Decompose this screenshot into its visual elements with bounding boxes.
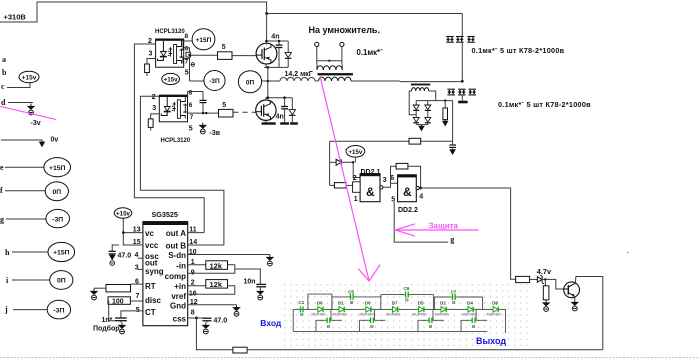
- wire node d: [8, 102, 33, 104]
- capacitor 1n CT: [115, 317, 127, 319]
- wire multiplier input rail: [293, 308, 505, 310]
- wire T1 primary leads: [317, 47, 342, 65]
- wire multiplier left drop: [292, 309, 294, 331]
- svg-text:+15П: +15П: [49, 165, 66, 172]
- supply +15v oval (U1 area): [162, 73, 180, 84]
- svg-text:syng: syng: [145, 267, 164, 276]
- svg-text:out A: out A: [166, 229, 186, 238]
- svg-text:7: 7: [136, 293, 140, 300]
- svg-text:D7: D7: [392, 300, 398, 305]
- svg-text:&: &: [366, 185, 375, 199]
- svg-text:10n: 10n: [244, 278, 256, 285]
- svg-text:+15П: +15П: [53, 250, 70, 257]
- transformer T1 primary terminal right: [340, 42, 344, 46]
- capacitor 10n: [256, 283, 266, 285]
- wire diode to DD2.1 pin2: [342, 162, 361, 177]
- wire U2 pin3 to R input: [151, 114, 160, 119]
- svg-text:7: 7: [185, 59, 189, 66]
- svg-text:7: 7: [190, 114, 194, 121]
- diode bridge leg right: [427, 101, 429, 105]
- wire U2 pin7 to gate resistor: [188, 112, 219, 114]
- transformer T1 core bar: [318, 73, 353, 75]
- wire -in to 12k: [188, 264, 206, 266]
- wire S-dn to ground: [188, 254, 270, 256]
- wire multiplier bottom bus: [293, 330, 487, 332]
- wire Q1 source node: [265, 64, 267, 68]
- capacitor 47.0 css: [203, 317, 212, 319]
- diode protection: [336, 159, 341, 165]
- wire node i: [12, 279, 50, 281]
- svg-text:+in: +in: [174, 282, 186, 291]
- svg-text:ʘ: ʘ: [350, 300, 354, 305]
- wire CT pin to cap: [121, 311, 143, 318]
- ground arrow under bridge resistor: [443, 120, 448, 126]
- resistor 5 Ohm (gate B): [219, 109, 234, 117]
- svg-text:RT: RT: [145, 282, 156, 291]
- resistor 12k (feedback): [206, 261, 228, 270]
- svg-text:5: 5: [185, 70, 189, 77]
- resistor bridge load: [444, 101, 446, 108]
- resistor DD2.2 feedback: [391, 166, 397, 183]
- wire Q2 source: [265, 120, 267, 122]
- svg-text:D8: D8: [492, 300, 498, 305]
- svg-text:f: f: [0, 186, 3, 195]
- wire Q3 collector to bottom rail: [575, 277, 603, 350]
- svg-text:C5: C5: [348, 290, 354, 295]
- wire node h: [12, 251, 48, 253]
- svg-text:a: a: [2, 55, 6, 64]
- wire bridge bottom: [416, 124, 428, 126]
- svg-text:+15v: +15v: [164, 77, 178, 84]
- resistor 5 Ohm (gate A): [218, 52, 233, 60]
- ground css cap: [206, 321, 208, 323]
- svg-text:0П: 0П: [246, 79, 255, 86]
- diode snubber Q1: [287, 41, 289, 53]
- ground Gnd pin: [233, 305, 239, 311]
- svg-text:4.7v: 4.7v: [537, 267, 552, 276]
- svg-text:D5: D5: [418, 300, 424, 305]
- svg-text:g: g: [0, 215, 4, 224]
- diode D2: [437, 308, 450, 310]
- wire multiplier loop tops: [308, 294, 332, 309]
- svg-text:ʘ: ʘ: [452, 300, 456, 305]
- transformer T1 secondary winding on main wire: [319, 77, 352, 81]
- zener diode 4.7v: [537, 277, 542, 283]
- capacitor C7: [452, 294, 454, 300]
- diode bridge leg left: [415, 101, 417, 105]
- svg-text:g: g: [450, 235, 454, 244]
- supply 0П circle (i): [50, 271, 73, 290]
- wire bridge rail down to protection line: [452, 101, 454, 142]
- svg-text:vcc: vcc: [145, 241, 159, 250]
- svg-text:4n: 4n: [271, 34, 279, 41]
- svg-text:6: 6: [185, 46, 189, 53]
- ground -3v: [28, 104, 34, 110]
- svg-text:D1: D1: [338, 300, 344, 305]
- capacitor lower tier at x=433: [432, 309, 434, 320]
- capacitor C5: [350, 294, 352, 300]
- svg-text:ʘ: ʘ: [429, 324, 433, 329]
- svg-text:Выход: Выход: [476, 336, 506, 346]
- svg-text:Подбор: Подбор: [93, 325, 120, 333]
- wire comp to 10n cap: [235, 269, 260, 284]
- wire node e: [5, 166, 44, 168]
- resistor 12k (vref divider): [206, 280, 228, 289]
- svg-text:css: css: [173, 314, 187, 323]
- transformer T1 primary terminal left: [315, 42, 319, 46]
- wire main HV run to right: [351, 80, 462, 83]
- capacitor U2 bypass: [200, 99, 207, 101]
- wire vref loop: [188, 286, 235, 295]
- svg-text:1n*: 1n*: [102, 317, 113, 324]
- svg-text:2: 2: [353, 175, 357, 182]
- wire zener to transistor base: [542, 279, 564, 289]
- wire +in to 12k: [188, 285, 206, 287]
- ground S-dn: [267, 255, 273, 261]
- op-amp U1 HCPL3120 body: [156, 39, 184, 67]
- diode snubber Q2: [291, 98, 293, 110]
- transistor Q1 (upper IGBT): [256, 43, 277, 64]
- svg-text:D4: D4: [467, 300, 473, 305]
- svg-text:+310В: +310В: [4, 13, 27, 22]
- capacitor protection filter: [452, 141, 454, 145]
- svg-text:13: 13: [133, 226, 141, 233]
- wire bottom rail: [247, 349, 603, 351]
- wire comp loop: [188, 265, 235, 274]
- ground RT resistor: [91, 289, 97, 295]
- svg-text:-3П: -3П: [53, 307, 64, 314]
- svg-text:На умножитель.: На умножитель.: [309, 25, 380, 35]
- svg-text:4n: 4n: [276, 114, 284, 121]
- svg-text:4: 4: [419, 194, 423, 201]
- svg-text:0.1мк*ˉ: 0.1мк*ˉ: [357, 48, 384, 57]
- svg-text:D0: D0: [365, 300, 371, 305]
- svg-text:C7: C7: [451, 290, 457, 295]
- supply +15П circle (e): [44, 158, 71, 177]
- capacitor 4n (Q1): [278, 41, 280, 45]
- wire protection feed: [330, 140, 409, 142]
- wire diode input: [330, 161, 337, 163]
- wire node g: [6, 218, 46, 220]
- supply -3П circle (U1): [204, 71, 225, 91]
- diode D5: [415, 308, 428, 310]
- wire out A to U1 net: [188, 232, 205, 234]
- svg-text:D6: D6: [317, 300, 323, 305]
- svg-text:MUR460: MUR460: [435, 313, 449, 317]
- wire 0v with arrow: [1, 140, 42, 143]
- svg-text:out B: out B: [166, 241, 187, 250]
- op-amp U2 HCPL3120 body: [159, 95, 187, 122]
- svg-text:C1: C1: [299, 300, 305, 305]
- capacitor lower tier at x=476.1: [475, 309, 477, 320]
- ground bars under Q2 stage: [262, 122, 276, 124]
- supply -3П circle (g): [46, 209, 70, 227]
- svg-text:2: 2: [152, 94, 156, 101]
- annotation pink line (left): [0, 106, 56, 119]
- U2 internal LED: [166, 97, 168, 107]
- U2 internal driver: [177, 100, 180, 119]
- wire bridge mid rail: [416, 100, 452, 102]
- svg-text:c: c: [1, 82, 5, 91]
- transformer T2 winding: [412, 88, 429, 91]
- supply -3П circle (j): [47, 300, 70, 319]
- termination bar under row2: [458, 101, 467, 104]
- svg-text:5: 5: [189, 126, 193, 133]
- svg-text:8: 8: [189, 90, 193, 97]
- wire T2 right loop: [429, 91, 436, 101]
- svg-text:MUR460: MUR460: [359, 313, 373, 317]
- logic gate DD2.1 body: [360, 174, 380, 202]
- ground 10n cap: [259, 287, 261, 289]
- svg-text:comp: comp: [165, 272, 186, 281]
- transistor Q3 (protection BJT): [564, 282, 580, 298]
- svg-text:S-dn: S-dn: [168, 251, 186, 260]
- DD2.1 output circle: [380, 186, 383, 189]
- svg-text:6: 6: [189, 102, 193, 109]
- svg-text:1: 1: [354, 196, 358, 203]
- capacitor 4n (Q2): [284, 98, 286, 107]
- wire DD2.1 out to DD2.2 in: [383, 183, 398, 187]
- U1 output stage glyph: [186, 52, 191, 57]
- ground -3в below U2: [200, 123, 206, 129]
- wire DD2.2 output to driver: [419, 188, 515, 279]
- supply +15v oval (DD2 area): [346, 146, 365, 158]
- wire 100 resistor to CT cap: [109, 301, 115, 321]
- svg-text:Gnd: Gnd: [170, 302, 186, 311]
- svg-text:3: 3: [149, 51, 153, 58]
- svg-text:j: j: [4, 305, 8, 314]
- svg-text:ʘ: ʘ: [405, 298, 409, 303]
- svg-text:47.0: 47.0: [118, 253, 132, 260]
- inductor 14,2 мкГ: [268, 78, 318, 81]
- wire U1 pin5 to -3П: [190, 80, 205, 82]
- supply +15П circle (h): [48, 242, 75, 261]
- resistor U2 input: [148, 119, 153, 128]
- DD2.2 output circle: [416, 186, 419, 189]
- wire node f: [5, 190, 45, 192]
- wire T2 left loop: [409, 91, 416, 115]
- supply 0П circle (f): [45, 182, 68, 201]
- U1 internal driver: [174, 45, 177, 64]
- op-amp U3 SG3525 body: [143, 222, 188, 326]
- wire multiplier right drop: [505, 309, 507, 333]
- svg-text:ʘ: ʘ: [370, 324, 374, 329]
- wire 0П to midpoint: [262, 80, 268, 82]
- ground arrow under bridge: [419, 125, 424, 131]
- wire css to bottom rail: [196, 318, 233, 350]
- svg-text:e: e: [0, 163, 4, 172]
- svg-text:5: 5: [222, 44, 226, 51]
- ground CT cap: [120, 321, 122, 323]
- svg-text:+15v: +15v: [348, 149, 362, 156]
- annotation pink arrow Защита: [395, 229, 478, 231]
- resistor protection feed: [409, 138, 421, 144]
- svg-text:MUR460: MUR460: [311, 313, 325, 317]
- svg-text:-3в: -3в: [210, 130, 221, 137]
- capacitor bank row1 (0.1uF x5): [446, 36, 454, 38]
- wire U1 pin6 node: [184, 48, 190, 81]
- svg-text:15: 15: [133, 239, 141, 246]
- resistor bottom rail: [233, 347, 247, 353]
- svg-text:100: 100: [112, 299, 124, 306]
- ground arrow under filter cap: [450, 148, 455, 154]
- capacitor 47.0 on vcc: [112, 245, 119, 251]
- capacitor lower tier at x=374.4: [373, 309, 375, 320]
- svg-text:ʘ: ʘ: [300, 312, 304, 317]
- capacitor C6: [405, 292, 407, 298]
- wire U1 pin3 to R input: [147, 59, 156, 65]
- svg-text:SG3525: SG3525: [152, 210, 178, 219]
- svg-text:-3П: -3П: [209, 78, 220, 85]
- svg-text:14,2 мкГ: 14,2 мкГ: [285, 71, 313, 78]
- wire +310V step to top rail: [0, 2, 462, 22]
- svg-text:C6: C6: [404, 286, 410, 291]
- annotation pink arrow to multiplier: [320, 76, 369, 281]
- svg-text:ʘ: ʘ: [327, 324, 331, 329]
- svg-text:CT: CT: [145, 308, 156, 317]
- supply 0П circle (midpoint): [238, 71, 261, 93]
- wire U2 pin2 from out B net: [140, 96, 224, 245]
- wire Q1 drain node top: [266, 40, 288, 42]
- wire (dashed) gate resistor to Q2 gate: [233, 111, 256, 113]
- wire U1 pin8 to +15П: [184, 40, 193, 42]
- svg-text:3: 3: [135, 264, 139, 271]
- resistor DD2.1 pin1 input: [330, 184, 335, 186]
- svg-text:d: d: [1, 98, 6, 107]
- resistor U1 input: [145, 64, 150, 73]
- wire U1 out to gate resistor: [191, 54, 218, 56]
- transformer T1 primary winding: [317, 66, 342, 70]
- wire +15v to diode node: [354, 157, 356, 162]
- svg-text:vc: vc: [145, 229, 154, 238]
- wire cap row2 to termination bar: [461, 95, 463, 101]
- U1 internal LED: [162, 41, 164, 52]
- diode D8: [489, 308, 502, 310]
- wire +15v to vc/vcc pins: [123, 218, 143, 245]
- wire half-bridge midpoint vertical: [267, 67, 269, 97]
- diode D7: [389, 308, 402, 310]
- svg-text:HCPL3120: HCPL3120: [161, 138, 191, 144]
- svg-text:MUR460: MUR460: [333, 313, 347, 317]
- wire Q1 drain to +310V rail: [266, 14, 268, 45]
- svg-text:12k: 12k: [210, 280, 223, 289]
- wire top rail drop at x=462: [461, 14, 463, 37]
- wire resistor to zener: [530, 278, 538, 280]
- svg-text:+15v: +15v: [22, 75, 37, 82]
- transformer T2 core bar: [411, 84, 430, 86]
- wire css node: [188, 317, 207, 319]
- capacitor lower tier at x=331: [330, 309, 332, 320]
- svg-text:-3v: -3v: [31, 120, 41, 127]
- svg-text:MUR460: MUR460: [386, 313, 400, 317]
- svg-text:5: 5: [222, 102, 226, 109]
- svg-text:8: 8: [191, 310, 195, 317]
- wire U2 pin8 to bypass cap: [188, 92, 203, 101]
- diode D6: [314, 308, 327, 310]
- svg-text:0v: 0v: [51, 137, 59, 144]
- svg-text:3: 3: [152, 105, 156, 112]
- svg-text:DD2.2: DD2.2: [398, 207, 418, 214]
- svg-text:vref: vref: [171, 292, 186, 301]
- wire gate resistor to Q1 gate: [232, 55, 256, 57]
- svg-text:MUR460: MUR460: [487, 313, 501, 317]
- svg-text:b: b: [2, 68, 7, 77]
- diode D1: [335, 308, 348, 310]
- svg-text:ʘ: ʘ: [472, 324, 476, 329]
- supply +15П circle (U1): [192, 29, 215, 50]
- svg-text:D2: D2: [440, 300, 446, 305]
- wire resistor stub: [146, 73, 148, 77]
- svg-text:3: 3: [383, 177, 387, 184]
- svg-text:-in: -in: [176, 262, 186, 271]
- wire node j: [13, 309, 47, 311]
- DD2.1 pin1 notch: [353, 182, 361, 193]
- resistor base pulldown: [544, 279, 546, 285]
- logic gate DD2.2 body: [398, 175, 417, 202]
- svg-text:MUR460: MUR460: [462, 313, 476, 317]
- svg-text:Вход: Вход: [260, 318, 282, 328]
- diode D4: [464, 308, 477, 310]
- wire Gnd to ground: [188, 304, 237, 306]
- svg-text:-3П: -3П: [52, 216, 63, 223]
- wire resistor stub: [150, 127, 152, 130]
- ground below pulldown resistor: [543, 300, 549, 306]
- wire out B to U2 net: [188, 244, 224, 246]
- svg-text:0.1мк*ˉ 5 шт К78-2*1000в: 0.1мк*ˉ 5 шт К78-2*1000в: [498, 100, 591, 109]
- supply +15v oval (SG3525): [114, 208, 132, 218]
- capacitor C1: [300, 306, 302, 312]
- svg-text:47.0: 47.0: [214, 318, 228, 325]
- diode D0: [362, 308, 375, 310]
- resistor driver base feed: [516, 276, 530, 282]
- svg-text:disc: disc: [145, 296, 162, 305]
- wire protection left drop: [329, 141, 331, 185]
- capacitor bank row2 (0.1uF x5): [447, 88, 455, 90]
- stray dot: [627, 252, 629, 254]
- transistor Q2 (lower IGBT): [256, 100, 276, 120]
- svg-text:+15П: +15П: [196, 37, 212, 44]
- wire Q2 drain node: [265, 98, 267, 101]
- resistor RT: [131, 283, 143, 285]
- wire DD2.2 pin5 to g: [394, 202, 448, 242]
- svg-text:8: 8: [185, 33, 189, 40]
- wire U1 pin2 from out A net: [134, 44, 204, 233]
- small ground mark near U1 pin5: [191, 63, 195, 67]
- svg-text:0.1мк*ˉ 5 шт К78-2*1000в: 0.1мк*ˉ 5 шт К78-2*1000в: [472, 46, 565, 55]
- wire cap to pin7 node: [202, 103, 204, 114]
- wire through cap row1: [461, 42, 463, 81]
- wire node c to +15v oval: [7, 83, 30, 88]
- svg-text:Защита: Защита: [429, 222, 459, 231]
- resistor 100 (disc): [108, 297, 130, 305]
- supply +15v oval (left): [19, 71, 39, 82]
- ground below Q3 emitter: [574, 296, 576, 299]
- svg-text:+15v: +15v: [116, 211, 130, 218]
- svg-text:&: &: [403, 185, 412, 199]
- svg-text:12k: 12k: [210, 261, 223, 270]
- svg-text:h: h: [5, 248, 10, 257]
- svg-text:HCPL3120: HCPL3120: [155, 29, 185, 35]
- svg-text:MUR460: MUR460: [412, 313, 426, 317]
- svg-text:0П: 0П: [57, 278, 66, 285]
- svg-text:0П: 0П: [52, 189, 61, 196]
